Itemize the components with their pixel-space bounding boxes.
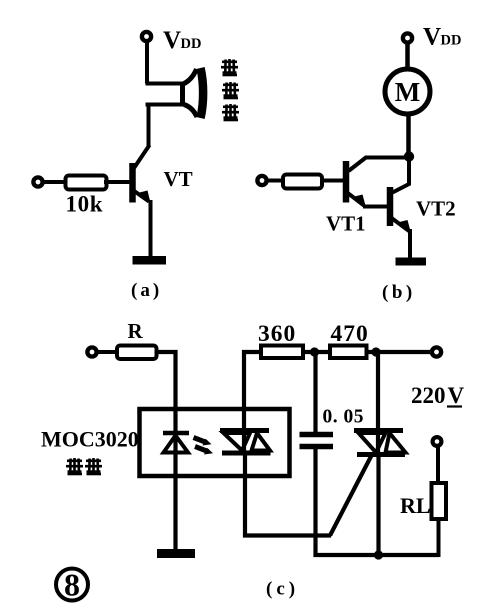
svg-text:M: M bbox=[395, 77, 420, 107]
terminal input (a) bbox=[33, 177, 42, 186]
node 360/470/cap junction bbox=[310, 347, 319, 356]
transistor VT2 emitter with arrow bbox=[392, 218, 410, 231]
svg-text:VT1: VT1 bbox=[326, 212, 366, 236]
triac VS top bar bbox=[354, 428, 403, 433]
capacitor 0.05 bottom plate bbox=[300, 444, 334, 450]
opto triac bottom bar bbox=[222, 451, 271, 456]
svg-text:220: 220 bbox=[411, 383, 446, 408]
wire input to resistor bbox=[43, 180, 66, 184]
wire VT2 emitter to ground bbox=[408, 229, 412, 258]
label buzzer char 1 bbox=[221, 59, 238, 76]
wire gate diagonal bbox=[330, 454, 373, 536]
optocoupler U1 box MOC3020 bbox=[140, 409, 290, 476]
wire input to resistor (b) bbox=[267, 179, 285, 183]
transistor VT1 base bar bbox=[343, 161, 350, 203]
transistor VT base bar bbox=[129, 163, 136, 203]
junction node collector bbox=[404, 151, 414, 161]
node triac bottom rail junction bbox=[374, 550, 383, 559]
resistor R body bbox=[117, 346, 157, 360]
label buzzer char 2 bbox=[222, 82, 239, 99]
wire 470 junction to triac MT2 bbox=[376, 352, 380, 456]
wire junction to cap top bbox=[313, 352, 317, 434]
transistor VT2 base bar bbox=[387, 187, 394, 226]
LED D1 triangle bbox=[164, 436, 189, 453]
buzzer BZ horn body bbox=[182, 69, 198, 117]
triac VS right triangle bbox=[386, 433, 406, 453]
triac VS left triangle bbox=[359, 433, 386, 453]
svg-text:(a): (a) bbox=[131, 280, 162, 301]
svg-text:VT2: VT2 bbox=[416, 197, 456, 221]
figure number 8 circle bbox=[56, 569, 88, 601]
wire motor to junction bbox=[406, 113, 411, 157]
ground (b) bbox=[396, 258, 427, 266]
wire input to R bbox=[97, 350, 118, 354]
svg-text:(b): (b) bbox=[382, 282, 416, 303]
opto triac right triangle bbox=[252, 433, 271, 451]
terminal VDD (b) bbox=[403, 33, 412, 42]
wire resistor to VT1 base bbox=[323, 179, 344, 183]
terminal AC neutral bbox=[433, 437, 442, 446]
terminal AC line bbox=[432, 347, 441, 356]
svg-text:DD: DD bbox=[441, 33, 462, 49]
svg-text:8: 8 bbox=[64, 567, 80, 603]
transistor VT emitter with arrow bbox=[134, 191, 150, 202]
capacitor 0.05 top plate bbox=[300, 432, 334, 438]
wire RL to bottom rail bbox=[437, 519, 441, 557]
wire cap bottom to bottom rail bbox=[316, 447, 440, 555]
wire speaker bottom lead bbox=[146, 103, 186, 107]
triac VS bottom bar bbox=[357, 452, 405, 457]
svg-text:V: V bbox=[448, 383, 465, 408]
svg-text:RL: RL bbox=[400, 493, 431, 518]
ground (c) bbox=[157, 549, 195, 558]
light arrow 2 bbox=[195, 447, 208, 452]
opto triac left triangle bbox=[224, 433, 251, 451]
svg-text:0. 05: 0. 05 bbox=[323, 407, 365, 428]
wire collector vertical bbox=[147, 103, 151, 148]
svg-text:(c): (c) bbox=[266, 579, 299, 600]
transistor VT collector diagonal bbox=[133, 145, 150, 170]
node 470/triac junction bbox=[371, 347, 380, 356]
wire 470 to terminal bbox=[367, 350, 433, 354]
svg-text:VT: VT bbox=[164, 167, 193, 191]
wire VT1 emitter to VT2 base bbox=[363, 205, 387, 209]
svg-text:MOC3020: MOC3020 bbox=[41, 427, 139, 452]
terminal input (c) bbox=[87, 347, 96, 356]
light arrow 1 bbox=[194, 438, 207, 443]
resistor Rb body bbox=[283, 175, 322, 189]
motor M circle bbox=[385, 69, 430, 114]
wire VDD to motor bbox=[405, 42, 410, 70]
svg-text:V: V bbox=[163, 27, 181, 54]
transistor VT2 collector diagonal bbox=[393, 184, 411, 193]
terminal input (b) bbox=[257, 176, 266, 185]
wire opto MT1 to gate run bbox=[245, 453, 331, 536]
wire VT1 collector horizontal bbox=[365, 156, 409, 160]
transistor VT1 collector diagonal bbox=[349, 157, 367, 171]
label buzzer char 3 bbox=[222, 104, 239, 121]
wire triac MT1 to bottom rail bbox=[376, 454, 380, 555]
wire R to LED anode bbox=[155, 352, 176, 433]
svg-text:470: 470 bbox=[331, 321, 369, 347]
buzzer BZ front bar bbox=[201, 68, 204, 118]
wire resistor to base bbox=[104, 180, 130, 184]
wire speaker top lead bbox=[146, 82, 183, 86]
opto triac top bar bbox=[220, 428, 269, 433]
wire emitter to ground bbox=[149, 200, 153, 258]
resistor RL body bbox=[432, 483, 447, 519]
label series char 1 bbox=[66, 458, 83, 475]
resistor 10k body bbox=[66, 176, 107, 190]
ground (a) bbox=[133, 256, 167, 265]
wire VDD to speaker top bbox=[145, 41, 149, 84]
svg-text:DD: DD bbox=[181, 36, 202, 52]
LED D1 cathode bar bbox=[163, 431, 189, 436]
wire 360 to 470 bbox=[303, 350, 330, 354]
transistor VT1 emitter with arrow bbox=[347, 193, 364, 206]
wire LED cathode to ground bbox=[173, 433, 177, 551]
resistor 360 body bbox=[261, 346, 303, 359]
svg-text:10k: 10k bbox=[66, 192, 104, 217]
svg-text:V: V bbox=[423, 24, 441, 51]
resistor 470 body bbox=[330, 346, 367, 359]
wire opto MT2 to 360 bbox=[244, 352, 261, 455]
svg-text:360: 360 bbox=[258, 321, 296, 347]
wire VT2 collector vertical bbox=[407, 156, 411, 186]
label series char 2 bbox=[85, 458, 102, 475]
wire terminal to RL bbox=[436, 446, 440, 484]
svg-text:R: R bbox=[128, 319, 144, 343]
terminal VDD (a) bbox=[142, 32, 151, 41]
